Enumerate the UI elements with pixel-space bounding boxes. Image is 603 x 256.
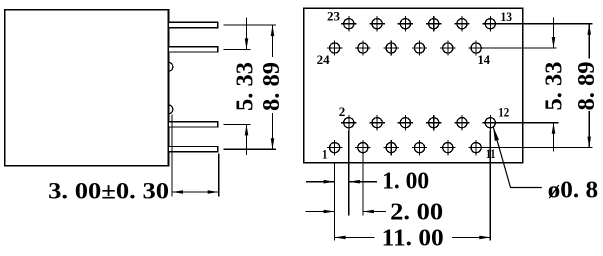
leader line hole diameter <box>493 127 541 187</box>
hole pin 9 <box>440 140 455 155</box>
svg-text:23: 23 <box>327 9 341 24</box>
dim 8.89 right view upper arrow <box>587 24 591 35</box>
pin 2 side view lead <box>169 47 218 52</box>
dim 3.00 right arrow <box>208 190 219 194</box>
extension line pin2 center <box>224 48 251 50</box>
svg-text:12: 12 <box>498 105 509 120</box>
hole pin 13 <box>483 16 498 31</box>
hole pin 21 <box>369 16 384 31</box>
dim 8.89 left view upper line <box>272 25 274 57</box>
dim 11.00 right line <box>452 236 490 238</box>
svg-text:5. 33: 5. 33 <box>542 62 568 111</box>
hole pin 5 <box>384 140 399 155</box>
svg-text:8. 89: 8. 89 <box>259 62 285 111</box>
dim 1.00 right arrow <box>349 180 360 184</box>
dim 3.00 dimension line <box>172 191 219 193</box>
hole pin 8 <box>426 115 441 130</box>
extension line row 14 <box>484 47 557 49</box>
svg-text:11. 00: 11. 00 <box>382 225 444 251</box>
hole pin 22 <box>355 40 370 55</box>
extension line column pin 2 <box>348 130 350 215</box>
dim 5.33 left view upper line <box>246 18 248 50</box>
pin 1 side view lead <box>169 22 218 27</box>
svg-text:8. 89: 8. 89 <box>574 62 600 111</box>
hole pin 14 <box>468 40 483 55</box>
dim 3.00 extension line left <box>171 115 173 197</box>
hole pin 6 <box>398 115 413 130</box>
dim 5.33 right view upper line <box>553 18 555 49</box>
extension line pin1 center <box>224 24 277 26</box>
leader arrow at pin 12 hole <box>493 127 499 141</box>
dim 11.00 left arrow <box>335 236 346 240</box>
extension line pin3 center <box>224 123 251 125</box>
svg-text:1: 1 <box>322 147 328 162</box>
dim 5.33 right view lower line <box>553 123 555 152</box>
hole pin 20 <box>384 40 399 55</box>
dim 5.33 right view upper arrow <box>552 37 556 48</box>
dim 3.00 left arrow <box>172 190 183 194</box>
pin 4 side view lead <box>169 147 218 152</box>
dim 1.00 right leader line <box>349 181 377 183</box>
dim 11.00 right arrow <box>479 236 490 240</box>
extension line row 11 <box>484 147 593 149</box>
hole pin 10 <box>454 115 469 130</box>
extension line row 12 <box>498 122 559 124</box>
hole pin 18 <box>412 40 427 55</box>
svg-text:24: 24 <box>317 52 331 67</box>
dim 2.00 left leader line <box>306 211 335 213</box>
svg-text:13: 13 <box>501 9 513 24</box>
relay base outline bottom view <box>304 8 523 162</box>
dim 8.89 left view upper arrow <box>271 25 275 36</box>
dim 3.00 extension line right <box>218 153 220 196</box>
dim 8.89 right view lower line <box>588 111 590 148</box>
dim 5.33 left view upper arrow <box>245 38 249 49</box>
dim 2.00 right leader line <box>363 211 386 213</box>
dim 5.33 right view lower arrow <box>552 123 556 134</box>
dim 8.89 right view lower arrow <box>587 137 591 148</box>
extension line pin4 center <box>224 148 277 150</box>
hole pin 2 <box>341 115 356 130</box>
svg-text:5. 33: 5. 33 <box>233 62 259 111</box>
dim 2.00 right arrow <box>363 210 374 214</box>
hole pin 7 <box>412 140 427 155</box>
hole pin 1 <box>327 140 342 155</box>
svg-text:ø0. 8: ø0. 8 <box>548 177 599 203</box>
extension line column pin 3 <box>362 155 364 215</box>
hole pin 12 <box>483 115 498 130</box>
svg-text:1. 00: 1. 00 <box>382 169 429 195</box>
extension line column pin 12 <box>489 130 491 240</box>
hole pin 19 <box>398 16 413 31</box>
body bump 2 <box>169 105 173 114</box>
dim 5.33 left view lower line <box>246 124 248 155</box>
hole pin 23 <box>341 16 356 31</box>
hole pin 3 <box>355 140 370 155</box>
dim 2.00 left arrow <box>324 210 335 214</box>
hole pin 17 <box>426 16 441 31</box>
dim 11.00 left line <box>335 236 375 238</box>
svg-text:2. 00: 2. 00 <box>390 200 443 226</box>
svg-text:14: 14 <box>478 52 491 67</box>
hole pin 15 <box>454 16 469 31</box>
hole pin 11 <box>468 140 483 155</box>
dim 8.89 left view lower arrow <box>271 138 275 149</box>
extension line row 13 <box>497 23 593 25</box>
body bump 1 <box>169 62 173 71</box>
dim 8.89 left view lower line <box>272 113 274 149</box>
dim 1.00 left leader line <box>306 181 334 183</box>
svg-text:2: 2 <box>339 104 346 119</box>
hole pin 16 <box>440 40 455 55</box>
hole pin 4 <box>369 115 384 130</box>
hole pin 24 <box>327 40 342 55</box>
relay body side view <box>5 10 169 166</box>
svg-text:3. 00±0. 30: 3. 00±0. 30 <box>48 178 169 204</box>
extension line column pin 1 <box>334 163 336 241</box>
dim 5.33 left view lower arrow <box>245 124 249 135</box>
pin 3 side view lead <box>169 122 218 127</box>
dim 1.00 left arrow <box>324 180 335 184</box>
dim 8.89 right view upper line <box>588 24 590 59</box>
